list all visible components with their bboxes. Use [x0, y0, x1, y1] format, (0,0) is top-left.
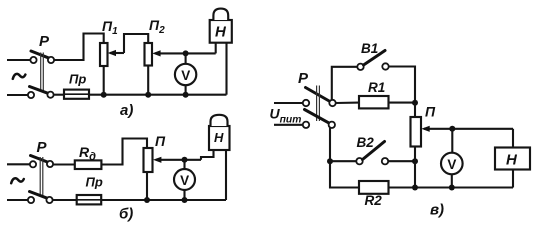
switch P terminal lower-right (v)	[329, 122, 335, 128]
switch P lower blade (b)	[30, 192, 48, 199]
rheostat P1 body (a)	[100, 43, 108, 66]
node rheostat bottom / B2 (v)	[412, 158, 418, 164]
svg-text:В2: В2	[357, 135, 375, 150]
wire H bottom lead (v)	[512, 170, 514, 188]
svg-text:б): б)	[119, 206, 133, 223]
wire lower-left stub (b)	[7, 199, 28, 201]
switch B1 terminal left (v)	[357, 64, 363, 70]
switch P lower blade (v)	[305, 110, 330, 124]
wire switch to Rd (b)	[53, 163, 75, 165]
svg-text:Р: Р	[37, 139, 48, 156]
resistor R2 body (v)	[359, 181, 389, 194]
switch P upper blade (a)	[31, 51, 50, 58]
rheostat P wiper arrow (b)	[156, 159, 201, 161]
switch B1 terminal right (v)	[382, 63, 388, 69]
switch B2 terminal left (v)	[356, 158, 362, 164]
node V bottom (a)	[183, 92, 189, 98]
switch B2 blade (v)	[363, 142, 385, 160]
switch B1 blade (v)	[364, 51, 386, 66]
svg-text:Р: Р	[39, 33, 50, 50]
wire bottom bus left segment (a)	[54, 94, 65, 96]
wire bottom bus (a)	[89, 94, 227, 96]
switch P terminal lower-left (v)	[303, 122, 309, 128]
svg-text:П: П	[425, 104, 436, 120]
voltmeter V body (b)	[174, 169, 195, 190]
wire bottom bus left segment (b)	[53, 199, 77, 201]
wire rheostat P bottom lead down (v)	[414, 147, 416, 188]
svg-text:П2: П2	[149, 17, 165, 36]
wire lamp H right lead (a)	[225, 43, 227, 95]
wire left vertical down (v)	[330, 128, 359, 188]
AC source tilde (b)	[11, 178, 24, 183]
wire P1 bottom lead (a)	[103, 66, 105, 95]
wire wiper line up to lamp H left lead (a)	[215, 43, 217, 54]
wire V bottom lead (a)	[185, 84, 187, 94]
svg-text:V: V	[180, 173, 189, 188]
node: V top junction (a)	[183, 50, 189, 56]
heater H body (v)	[495, 148, 530, 170]
wire wiper to lamp (b)	[201, 150, 214, 160]
svg-text:V: V	[447, 157, 456, 172]
switch P terminal lower-right (b)	[46, 197, 52, 203]
wire lower-left stub (v)	[274, 124, 303, 126]
svg-text:R2: R2	[365, 193, 383, 208]
svg-text:в): в)	[430, 202, 444, 219]
node P bottom (b)	[144, 197, 150, 203]
wire P to R1 (v)	[336, 102, 359, 105]
svg-text:Пр: Пр	[69, 72, 86, 87]
switch P terminal upper-left (v)	[303, 100, 309, 106]
rheostat P2 body (a)	[145, 43, 153, 66]
switch P terminal lower-right (a)	[47, 92, 53, 98]
node V top junction (v)	[449, 126, 455, 132]
wire upper-left stub (b)	[7, 163, 30, 165]
svg-text:Р: Р	[298, 70, 309, 87]
wire bottom bus (b)	[101, 199, 226, 201]
svg-text:Н: Н	[214, 130, 224, 145]
node P2 bottom (a)	[145, 92, 151, 98]
wire bottom bus (v)	[389, 186, 514, 188]
wire P1 wiper to P2 top (a)	[124, 34, 148, 53]
svg-text:Uпит: Uпит	[270, 106, 302, 126]
svg-text:V: V	[181, 68, 190, 83]
wire P bottom lead (b)	[146, 172, 148, 200]
node top of rheostat P (v)	[412, 100, 418, 106]
voltmeter V body (a)	[175, 64, 196, 85]
lamp H dome (b)	[211, 115, 228, 126]
node B2 branch left (v)	[327, 158, 333, 164]
fuse Pr body (a)	[64, 90, 89, 99]
node bus below P (v)	[412, 185, 418, 191]
switch P terminal lower-left (a)	[28, 92, 34, 98]
wire upper-left stub (v)	[274, 102, 303, 104]
AC source tilde (a)	[13, 74, 26, 79]
fuse Pr body (b)	[77, 195, 102, 204]
node bus below V (v)	[449, 185, 455, 191]
switch P mechanical link (a)	[40, 53, 42, 93]
switch P terminal upper-right (a)	[48, 57, 54, 63]
wire V top lead (b)	[183, 160, 185, 170]
svg-text:П: П	[155, 133, 166, 149]
resistor Rd body (b)	[75, 160, 102, 169]
node V top junction (b)	[182, 157, 188, 163]
wire V bottom lead (b)	[183, 190, 185, 201]
wire up to B1 branch (v)	[332, 67, 357, 100]
switch P mechanical link (b)	[39, 157, 41, 197]
svg-text:Н: Н	[506, 152, 518, 169]
lamp H dome (a)	[213, 9, 228, 20]
wire top: switch to P1 top (a)	[54, 34, 104, 61]
switch P mechanical link (v)	[316, 86, 318, 122]
wire B1 to node (v)	[389, 67, 415, 104]
switch P terminal upper-left (b)	[30, 161, 36, 167]
wire V top lead (v)	[451, 129, 453, 154]
wire upper-left stub (a)	[7, 59, 30, 61]
lamp H body (a)	[210, 20, 232, 43]
wire R1 to node (v)	[389, 102, 416, 104]
svg-text:В1: В1	[361, 41, 378, 56]
switch B2 terminal right (v)	[382, 158, 388, 164]
wire node to rheostat P top (v)	[414, 103, 416, 117]
wire H top lead (v)	[512, 129, 514, 148]
rheostat P wiper arrow (v)	[424, 128, 513, 130]
switch P upper blade (v)	[306, 88, 331, 102]
rheostat P2 wiper arrow (a)	[155, 52, 216, 54]
resistor R1 body (v)	[359, 96, 389, 108]
lamp H body (b)	[209, 126, 230, 150]
wire V bottom lead (v)	[451, 174, 453, 188]
wire lower-left stub (a)	[7, 94, 28, 96]
svg-text:а): а)	[120, 102, 133, 119]
voltmeter V body (v)	[441, 153, 463, 175]
rheostat P1 wiper arrow (a)	[110, 52, 124, 54]
svg-text:Пр: Пр	[86, 175, 103, 190]
svg-text:R1: R1	[368, 80, 385, 95]
rheostat P body (b)	[144, 148, 153, 172]
switch P upper blade (b)	[31, 156, 50, 163]
switch P terminal upper-right (v)	[329, 100, 335, 106]
switch P terminal upper-left (a)	[30, 57, 36, 63]
switch P terminal lower-left (b)	[28, 197, 34, 203]
rheostat P body (v)	[411, 117, 422, 147]
wire P2 bottom lead (a)	[147, 66, 149, 95]
wire lamp H right lead (b)	[225, 150, 227, 200]
svg-text:Н: Н	[215, 24, 227, 41]
wire V top lead (a)	[185, 53, 187, 64]
switch P lower blade (a)	[30, 87, 49, 94]
wire B2 to node (v)	[388, 160, 415, 162]
wire Rd to P top (b)	[101, 139, 147, 165]
wire to B2 (v)	[330, 160, 356, 162]
node P1 bottom (a)	[101, 92, 107, 98]
switch P terminal upper-right (b)	[47, 161, 53, 167]
node V bottom (b)	[182, 197, 188, 203]
